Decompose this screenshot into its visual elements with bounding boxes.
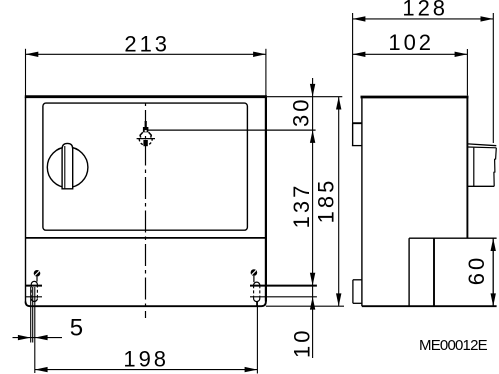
right mounting slot stadium: [254, 282, 260, 285]
side view: top edge: [361, 96, 469, 99]
left tab line A: [30, 287, 32, 343]
svg-text:137: 137: [289, 183, 314, 229]
side view: terminal block top edge: [409, 237, 497, 239]
dim 128: right extension line: [492, 13, 494, 143]
dim 185: bottom arrow: [336, 293, 341, 306]
svg-text:128: 128: [402, 0, 448, 21]
dim 213: right arrow: [253, 52, 266, 57]
left mounting bracket thin line: [26, 296, 43, 298]
side view: lower hinge knuckle: [353, 279, 362, 281]
svg-text:213: 213: [124, 31, 170, 56]
front view: enclosure right edge: [265, 97, 267, 302]
svg-text:10: 10: [290, 328, 315, 358]
side view: latch top line 1: [468, 144, 496, 146]
dim 102: dimension line: [353, 53, 468, 55]
front view: door inner rectangle: [43, 103, 248, 230]
cover screw: dashed lower arc: [139, 139, 152, 146]
left mounting screw stem: [36, 277, 38, 282]
dim 185: vertical dimension line: [338, 97, 340, 307]
cover screw: lower shaft blob: [143, 140, 147, 146]
dim 198: right arrow: [245, 367, 258, 372]
front view: enclosure top edge: [25, 95, 267, 98]
dim 128: right arrow: [481, 16, 494, 21]
dim 102: left arrow: [353, 52, 366, 57]
side view: back (right) edge: [466, 97, 468, 238]
side view: latch right stepped edge: [494, 148, 496, 187]
side view: front (left) edge: [361, 97, 363, 306]
dim 5: dimension line: [13, 337, 63, 339]
dim 185: top arrow: [336, 97, 341, 110]
cover screw: cross line: [137, 138, 155, 140]
side view: terminal block right edge / dim 60 line: [492, 238, 494, 306]
dim 10: bottom outside arrow: [310, 297, 315, 310]
cover screw: left wing: [140, 132, 143, 137]
dim 213: extension lines: [25, 49, 27, 97]
svg-text:5: 5: [70, 315, 86, 342]
side view: bottom edge: [362, 305, 497, 307]
svg-text:198: 198: [123, 347, 169, 372]
front view: door bottom face line: [26, 237, 266, 239]
dim 5: left outside arrow: [18, 335, 31, 340]
front view: vertical dash-dot centerline: [145, 102, 147, 319]
dim 30/137/10: vertical dimension line: [312, 78, 314, 358]
svg-text:102: 102: [388, 30, 434, 55]
dim 128: dimension line: [353, 18, 494, 20]
dim 198: dimension line: [35, 369, 258, 371]
side view: terminal block left edge: [408, 238, 410, 306]
svg-text:60: 60: [464, 255, 489, 285]
dim 198: left arrow: [35, 367, 48, 372]
dim 30: bottom outside arrow: [310, 130, 315, 143]
left mounting bracket thick line: [26, 285, 43, 287]
dim 137: bottom arrow: [310, 273, 315, 286]
rotary knob circle: [47, 147, 88, 188]
svg-text:30: 30: [289, 97, 314, 127]
side view: latch inner vertical: [473, 148, 475, 187]
side view: terminal block middle edge: [433, 238, 435, 306]
dim 128: left arrow: [353, 16, 366, 21]
cover screw: right wing: [149, 132, 152, 137]
dim 102: right arrow: [455, 52, 468, 57]
dim 213: dimension line: [26, 53, 266, 55]
right mounting screw head: [251, 269, 258, 276]
right mounting bracket thin line: [250, 296, 317, 298]
dim 60: bottom arrow: [491, 293, 496, 306]
side view: latch top line 2: [468, 146, 496, 149]
side view: latch bottom line: [467, 185, 494, 187]
cover screw: leader line to 30 dim: [146, 129, 316, 131]
left tab line B: [32, 287, 34, 343]
side view: upper hinge knuckle: [353, 122, 362, 124]
dim 30: top outside arrow: [310, 84, 315, 97]
left mounting screw head: [34, 270, 41, 277]
cover screw: shaft above: [145, 121, 147, 127]
front view: enclosure bottom edge with rounded corners: [26, 302, 266, 307]
rotary knob handle bar: [62, 143, 73, 188]
right slot lower stem: [256, 302, 258, 306]
dim 102: right extension line: [466, 49, 468, 96]
right mounting screw stem: [253, 276, 255, 282]
right mounting bracket thick line: [250, 285, 317, 287]
bottom edge extension line to the right: [266, 305, 344, 307]
rotary knob handle inner line: [64, 146, 66, 188]
dim 128: left extension line: [352, 13, 354, 146]
dim 60: top arrow: [491, 238, 496, 251]
right 198 extension line: [256, 302, 258, 374]
front view: enclosure left edge: [25, 97, 27, 302]
left tab / 198 extension line: [34, 287, 36, 373]
svg-text:ME00012E: ME00012E: [419, 337, 488, 354]
top edge extension line to the right: [267, 96, 342, 98]
dim 213: left arrow: [26, 52, 39, 57]
left mounting slot stadium: [31, 281, 37, 284]
svg-text:185: 185: [314, 178, 339, 224]
dim 5: right outside arrow: [35, 335, 48, 340]
cover screw: head square: [143, 127, 149, 132]
